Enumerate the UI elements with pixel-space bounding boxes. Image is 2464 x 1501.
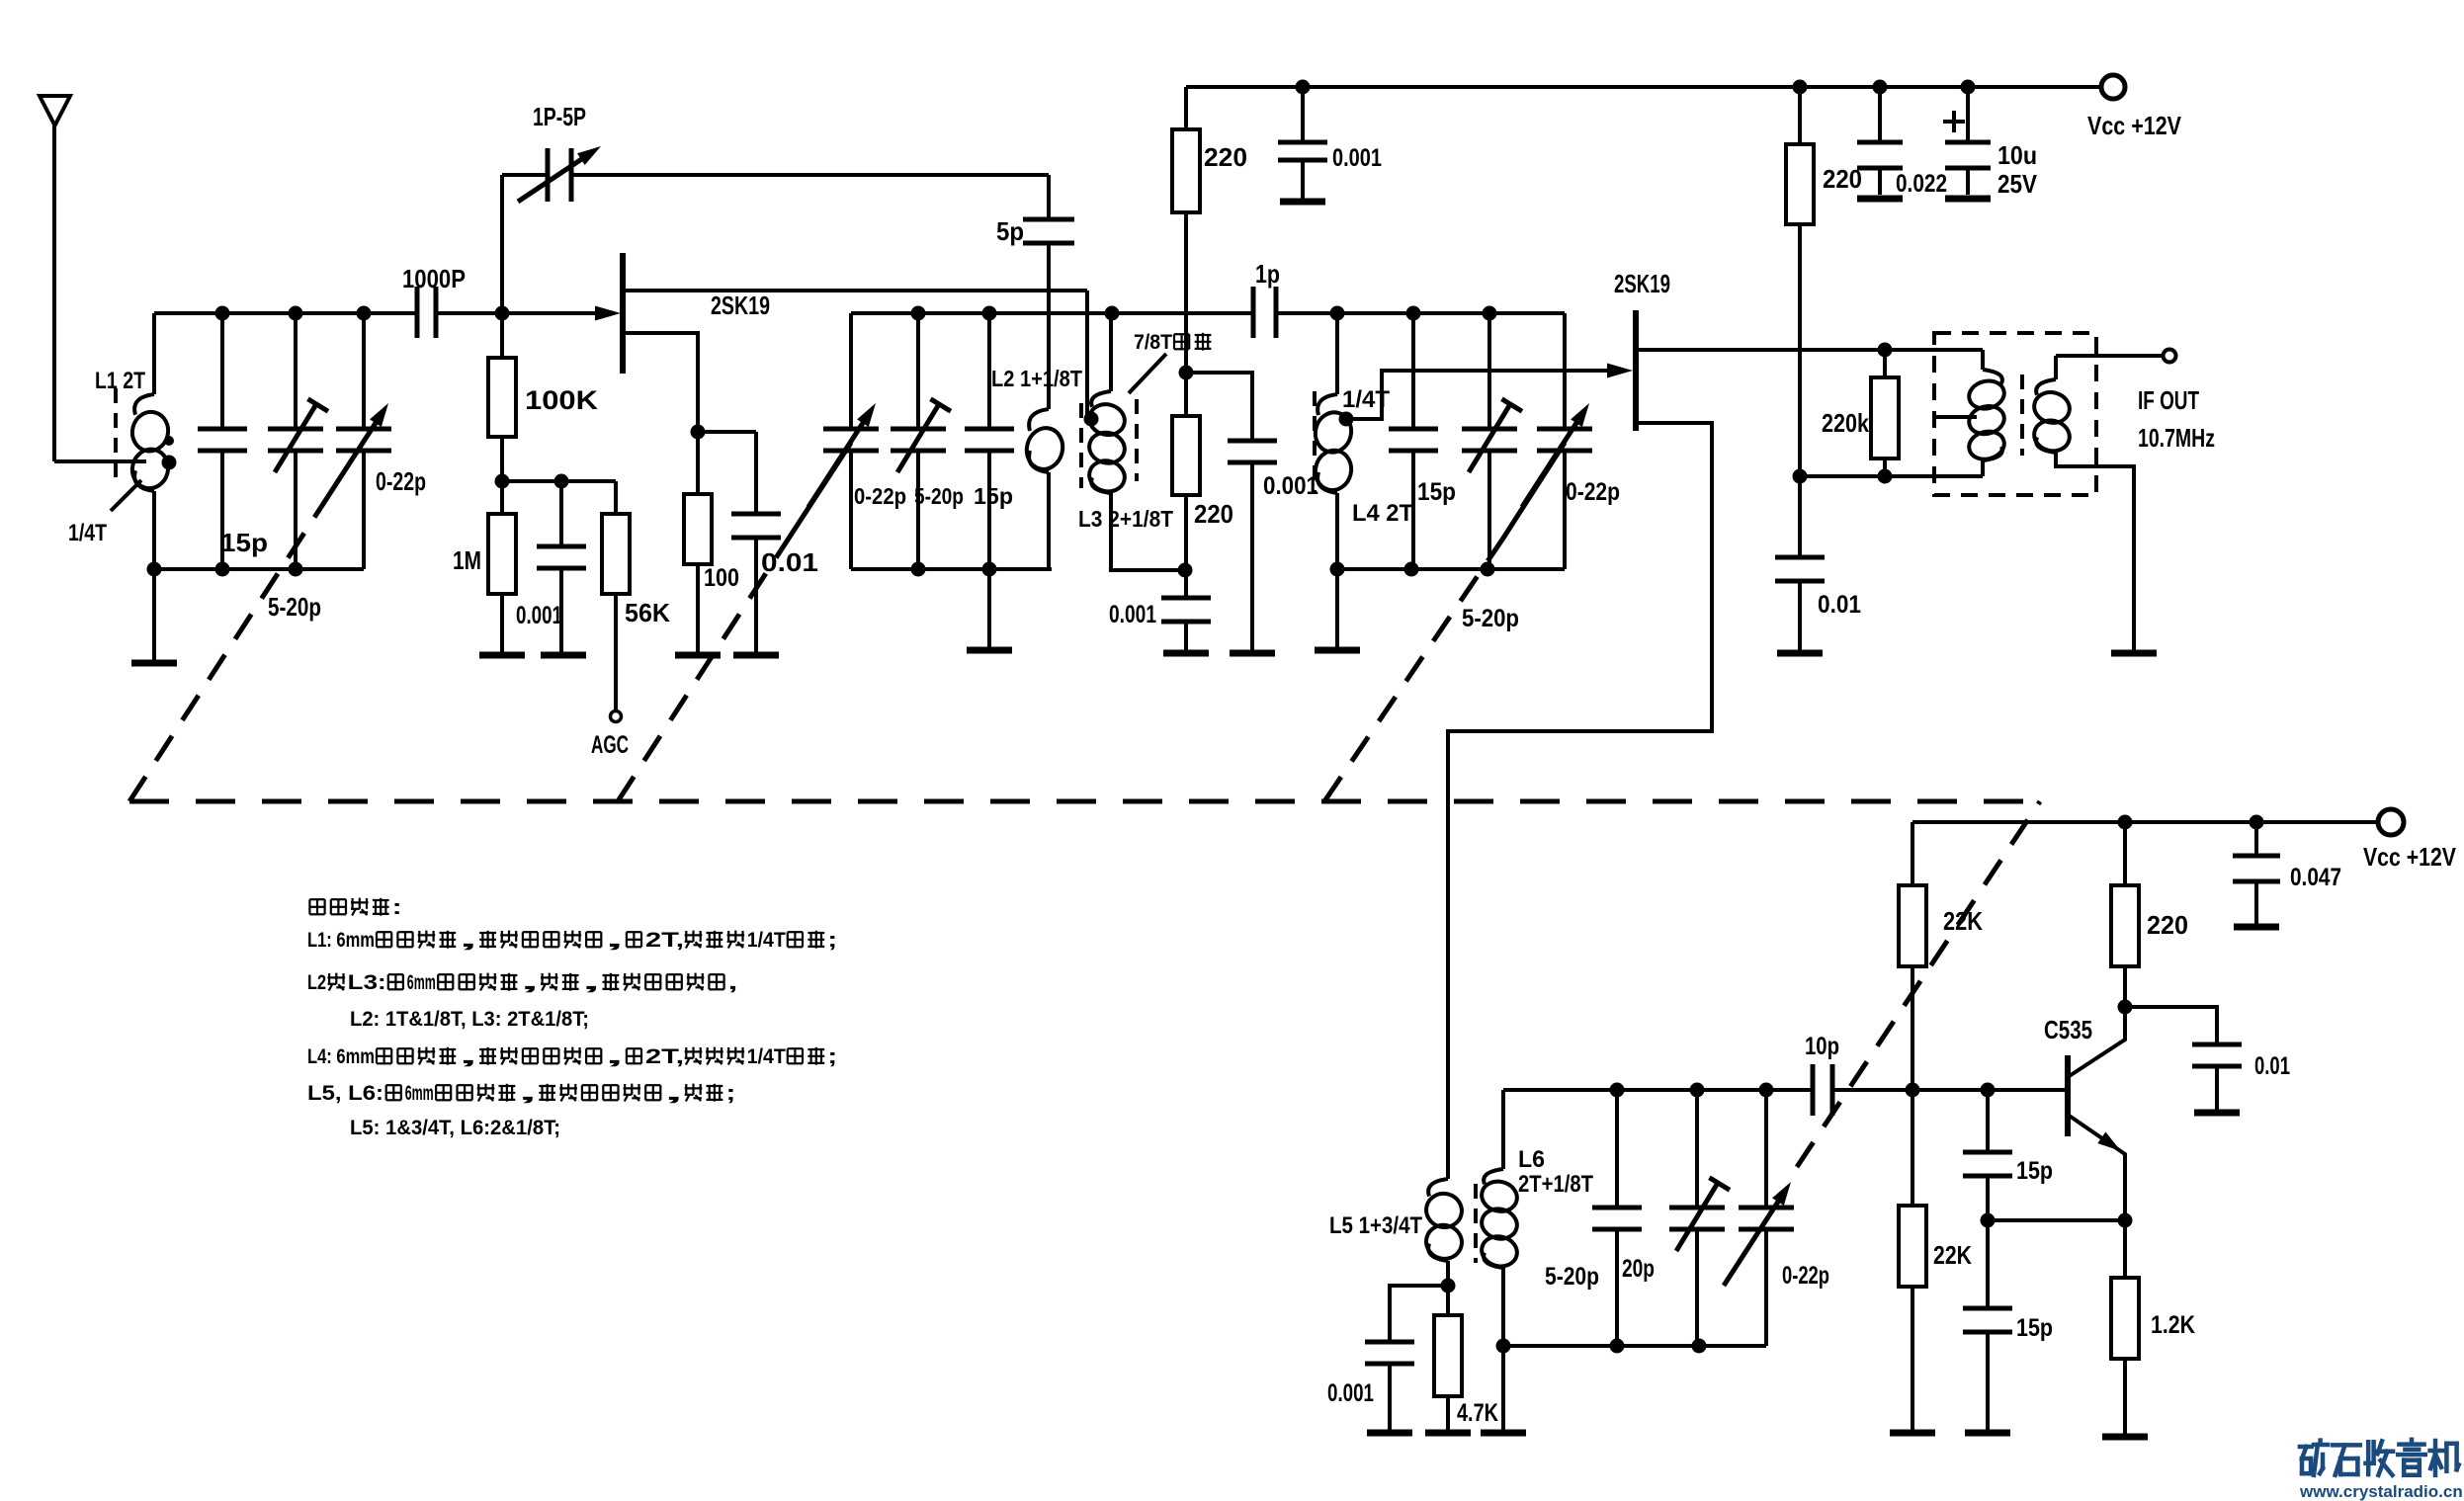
svg-text:C535: C535 [2044, 1015, 2092, 1044]
ground 0.047 [2234, 924, 2279, 931]
resistor 22K lower [1911, 1090, 1914, 1206]
svg-text:0-22p: 0-22p [1782, 1262, 1829, 1290]
node top rail [1296, 80, 1311, 95]
svg-text:56K: 56K [625, 598, 670, 627]
terminal IF OUT [2164, 350, 2176, 363]
svg-text:5-20p: 5-20p [914, 483, 964, 509]
transistor C535 emitter [2068, 1115, 2125, 1220]
svg-text:www.crystalradio.cn: www.crystalradio.cn [2299, 1482, 2463, 1501]
ground 15p osc lower [1965, 1430, 2010, 1437]
svg-text:0.001: 0.001 [1327, 1379, 1374, 1407]
node osc bottom bus [1496, 1339, 1511, 1354]
svg-text:1/4T: 1/4T [747, 1045, 786, 1068]
wire 15p to emitter [1988, 1218, 2125, 1222]
transistor 2SK19 first: channel bar [620, 253, 626, 374]
node tank2 bottom [911, 562, 926, 577]
svg-text:220k: 220k [1822, 408, 1869, 438]
node bottom rail [2118, 815, 2133, 830]
wire bottom bus tank2 [851, 567, 1052, 571]
node L3 tap 7/8T [1084, 412, 1099, 427]
inductor L2 [1029, 409, 1049, 431]
node FET1 gate [495, 306, 510, 321]
wire rail corner to 220 [1184, 87, 1188, 129]
svg-text:15p: 15p [2016, 1157, 2053, 1185]
wire 220 drain column [1798, 87, 1802, 144]
svg-text:,: , [605, 929, 624, 952]
svg-text:0-22p: 0-22p [854, 483, 906, 509]
wire tank3 top bus [1337, 311, 1565, 315]
wire FET2 source [1448, 423, 1712, 1179]
wire IF OUT [2056, 354, 2163, 358]
wire 10p to base [1832, 1088, 2068, 1092]
wire 5p to L2 [1047, 243, 1051, 409]
svg-text:L2 1+1/8T: L2 1+1/8T [991, 366, 1082, 391]
node 220k [1878, 343, 1893, 358]
svg-text:L6: L6 [1518, 1146, 1545, 1173]
ground 0.01 drain [1777, 650, 1823, 657]
svg-text:1.2K: 1.2K [2151, 1311, 2195, 1339]
terminal AGC [611, 711, 622, 722]
svg-text:;: ; [827, 1045, 837, 1068]
inductor L1 [152, 313, 156, 394]
wire antenna to L1 tap [54, 459, 146, 463]
svg-text:220: 220 [1194, 499, 1233, 529]
wire 1p to tank3 [1276, 311, 1337, 315]
ground 1M [479, 652, 525, 659]
node tank1 top L1 [215, 306, 230, 321]
node base bus [1906, 1083, 1920, 1098]
note coil parameters text [309, 898, 324, 900]
dashed linkage to tank2 [618, 550, 781, 801]
ground tank2 [967, 647, 1012, 654]
svg-text::: : [392, 896, 402, 919]
wire 5p top [1047, 175, 1051, 219]
capacitor 0.01 source [731, 512, 781, 517]
ground tank3 [1315, 647, 1360, 654]
svg-text:6mm: 6mm [405, 1082, 434, 1105]
wire bias node [502, 479, 616, 483]
svg-text:L5 1+3/4T: L5 1+3/4T [1329, 1212, 1422, 1239]
wire 1P-5P to 5p cap [571, 173, 1049, 177]
wire osc bottom bus [1503, 1344, 1766, 1348]
transistor C535 collector [2068, 1007, 2125, 1077]
wire tank2 ground stub [987, 569, 991, 647]
wire top bus tank1 [154, 311, 417, 315]
ground 0.001 bias [541, 652, 586, 659]
svg-text:5p: 5p [996, 216, 1024, 246]
ground 1.2K [2102, 1434, 2148, 1441]
svg-text:2T,: 2T, [645, 929, 684, 952]
wire osc top bus [1503, 1088, 1813, 1092]
dashed gang linkage horizontal [129, 799, 2040, 804]
svg-text:10u: 10u [1997, 140, 2037, 170]
capacitor 15p osc lower [1986, 1220, 1990, 1308]
dashed linkage to tank3 [1324, 540, 1502, 801]
ground 4.7K [1425, 1430, 1471, 1437]
IF transformer secondary [2054, 356, 2058, 379]
node C535 collector [2118, 1000, 2133, 1015]
svg-text:0.01: 0.01 [1818, 591, 1861, 619]
wire L5 to 0.001 [1390, 1286, 1448, 1342]
svg-text:6mm: 6mm [407, 971, 436, 994]
svg-text:L1 2T: L1 2T [95, 368, 145, 394]
capacitor 5p [1023, 217, 1074, 222]
capacitor 15p tank2 [987, 313, 991, 429]
trimmer 5-20p tank2 [916, 313, 920, 429]
svg-text:5-20p: 5-20p [1545, 1263, 1599, 1291]
svg-text:L2: 1T&1/8T, L3: 2T&1/8T;: L2: 1T&1/8T, L3: 2T&1/8T; [350, 1008, 589, 1031]
ground 0.01 osc [2194, 1110, 2240, 1117]
transistor 2SK19 second: gate arrow [1607, 364, 1633, 378]
node FET1 source [691, 425, 706, 440]
capacitor 10u electrolytic [1966, 87, 1970, 142]
svg-text:5-20p: 5-20p [268, 592, 321, 622]
node emitter [2118, 1213, 2133, 1228]
wire tank3 ground stub [1335, 569, 1339, 647]
core L2/L3 dashed [1079, 403, 1083, 488]
capacitor 15p osc upper [1986, 1090, 1990, 1152]
transistor C535 base bar [2065, 1055, 2071, 1136]
resistor 22K upper [1911, 822, 1914, 885]
resistor 1.2K [2123, 1220, 2127, 1278]
svg-text:0-22p: 0-22p [376, 466, 426, 496]
svg-text:4.7K: 4.7K [1457, 1399, 1498, 1427]
transistor 2SK19 first: gate arrow [595, 306, 621, 321]
node L1 tap [162, 456, 177, 470]
core of L1 (dashed) [114, 388, 118, 484]
svg-text:10.7MHz: 10.7MHz [2138, 423, 2215, 453]
wire bottom link [1800, 474, 1983, 478]
svg-text:15p: 15p [974, 483, 1013, 509]
wire 1000P to gate node [436, 311, 597, 315]
node drain bottom [1793, 469, 1808, 484]
capacitor 1p [1251, 287, 1256, 338]
node osc top bus [1610, 1083, 1625, 1098]
inductor L6 [1501, 1090, 1505, 1169]
svg-text:10p: 10p [1805, 1033, 1839, 1060]
svg-text:25V: 25V [1997, 169, 2038, 199]
capacitor 0.001 under L3 [1161, 596, 1211, 601]
dashed linkage to oscillator [1797, 801, 2040, 1167]
inductor L5 [1428, 1179, 1448, 1197]
svg-text:L5, L6:: L5, L6: [307, 1082, 383, 1105]
terminal Vcc bottom [2378, 809, 2404, 835]
trimmer 0-22p tank3 [1563, 313, 1567, 429]
svg-text:,: , [728, 971, 738, 994]
svg-text:1000P: 1000P [402, 264, 466, 293]
transistor 2SK19 second: channel bar [1633, 310, 1639, 431]
wire 0.001 side link [1186, 373, 1252, 441]
svg-text:0.001: 0.001 [1332, 144, 1382, 172]
svg-text:0.01: 0.01 [2254, 1052, 2290, 1080]
svg-text:,: , [605, 1045, 624, 1068]
node 15p mid [1981, 1213, 1996, 1228]
svg-text:0.001: 0.001 [1263, 472, 1318, 500]
svg-text:22K: 22K [1943, 906, 1983, 936]
svg-text:,: , [521, 971, 540, 994]
ground 0.022 [1857, 196, 1903, 203]
wire FET2 drain [1636, 348, 1983, 352]
svg-text:Vcc +12V: Vcc +12V [2363, 842, 2457, 872]
resistor 1M [500, 481, 504, 514]
node L3 bottom 220 [1178, 563, 1193, 578]
svg-text:,: , [459, 1045, 477, 1068]
svg-text:22K: 22K [1933, 1240, 1972, 1270]
capacitor 20p [1615, 1090, 1619, 1208]
resistor 220 upper mid [1172, 129, 1200, 212]
svg-text:220: 220 [1823, 164, 1862, 194]
svg-text:,: , [664, 1082, 683, 1105]
svg-text:0.001: 0.001 [516, 602, 562, 629]
inductor L3 [1109, 313, 1113, 391]
svg-text:,: , [582, 971, 601, 994]
svg-text:1/4T: 1/4T [747, 929, 786, 952]
resistor 220 osc [2123, 822, 2127, 885]
watermark crystalradio logo [2300, 1445, 2312, 1450]
capacitor 0.001 rail [1301, 87, 1305, 142]
resistor 100K [500, 313, 504, 358]
svg-text:220: 220 [2147, 910, 2188, 940]
svg-text:;: ; [725, 1082, 735, 1105]
wire to 1P-5P [502, 173, 548, 177]
svg-text:Vcc +12V: Vcc +12V [2087, 111, 2182, 140]
ground 0.01 source [733, 652, 779, 659]
inductor L4 [1335, 313, 1339, 394]
svg-text:1P-5P: 1P-5P [533, 102, 586, 131]
svg-text:0.022: 0.022 [1896, 170, 1947, 198]
resistor 220 drain [1786, 144, 1814, 224]
capacitor 15p tank1 [220, 313, 224, 429]
wire gate node up [500, 175, 504, 313]
trimmer 5-20p tank3 [1487, 313, 1491, 429]
ground 22K lower [1890, 1430, 1935, 1437]
svg-text:100: 100 [704, 564, 739, 592]
svg-text:;: ; [827, 929, 837, 952]
ground 10u [1945, 196, 1991, 203]
svg-text:L4 2T: L4 2T [1352, 500, 1413, 527]
svg-text:0.01: 0.01 [761, 547, 818, 577]
node tank3 bottom [1330, 562, 1345, 577]
node tank3 top [1330, 306, 1345, 321]
capacitor 0.047 [2254, 822, 2258, 856]
wire collector to 0.01 [2125, 1007, 2217, 1044]
capacitor 10p [1811, 1064, 1816, 1116]
capacitor 0.01 drain [1775, 555, 1825, 560]
IF transformer box dashed [1934, 333, 2096, 495]
ground L6 [1501, 1346, 1505, 1431]
IF transformer primary tap [1934, 415, 1977, 419]
ground 0.001 rail [1280, 199, 1325, 206]
trimmer 0-22p osc [1764, 1090, 1768, 1208]
wire FET1 source [623, 333, 698, 432]
wire L4 tap to FET2 gate [1346, 371, 1609, 419]
trimmer 5-20p tank1 [294, 313, 297, 429]
ground 100 [675, 652, 721, 659]
svg-text:,: , [459, 929, 477, 952]
antenna [40, 96, 70, 125]
svg-text:2T,: 2T, [645, 1045, 684, 1068]
IF transformer core dashed [2020, 375, 2024, 456]
svg-text:0.047: 0.047 [2290, 864, 2341, 891]
svg-text:,: , [518, 1082, 537, 1105]
IF transformer primary [1981, 350, 1985, 370]
svg-text:L5: 1&3/4T, L6:2&1/8T;: L5: 1&3/4T, L6:2&1/8T; [350, 1117, 560, 1139]
resistor 4.7K [1446, 1286, 1450, 1315]
wire bottom rail [1912, 820, 2378, 824]
svg-text:0-22p: 0-22p [1566, 478, 1620, 506]
wire tank3 bottom bus [1337, 567, 1565, 571]
trimmer 0-22p tank2 [849, 313, 853, 429]
svg-text:1/4T: 1/4T [68, 520, 107, 546]
ground 0.001 under L3 [1163, 650, 1209, 657]
ground 0.001 side [1230, 650, 1275, 657]
node bias [495, 474, 510, 489]
ground IF secondary [2111, 650, 2157, 657]
core L4 dashed [1313, 391, 1317, 492]
node tank1 bottom [147, 562, 162, 577]
core L5/L6 dashed [1474, 1184, 1478, 1263]
svg-text:15p: 15p [2016, 1314, 2053, 1342]
terminal Vcc top [2101, 75, 2125, 99]
node L4 tap [1339, 412, 1354, 427]
svg-text:AGC: AGC [591, 731, 629, 759]
svg-text:2SK19: 2SK19 [711, 291, 770, 320]
svg-text:15p: 15p [220, 528, 268, 557]
svg-text:7/8T: 7/8T [1134, 331, 1172, 354]
wire bottom bus tank1 [154, 567, 364, 571]
svg-text:2T+1/8T: 2T+1/8T [1518, 1171, 1593, 1198]
resistor 56K [602, 514, 630, 594]
svg-text:2SK19: 2SK19 [1614, 269, 1670, 298]
wire FET1 drain [623, 289, 1087, 292]
trimmer 1P-5P [546, 148, 551, 202]
wire source to 0.01 [698, 430, 756, 434]
svg-text:L3 2+1/8T: L3 2+1/8T [1078, 506, 1173, 532]
wire top rail [1186, 85, 2100, 89]
node tank2 top [911, 306, 926, 321]
svg-text:1p: 1p [1255, 259, 1280, 289]
capacitor 1000P [415, 287, 420, 338]
svg-text:100K: 100K [525, 385, 599, 415]
wire gate bus mixer [851, 311, 1253, 315]
capacitor 0.01 osc [2192, 1042, 2242, 1047]
capacitor 0.022 [1878, 87, 1882, 142]
resistor 220k [1871, 377, 1899, 459]
svg-text:1M: 1M [453, 545, 481, 575]
wire FET1 drain to L3 tap [1085, 291, 1089, 415]
svg-text:15p: 15p [1417, 478, 1456, 506]
svg-text:L1: 6mm: L1: 6mm [307, 929, 375, 952]
capacitor 0.001 bias [559, 481, 563, 546]
svg-text:20p: 20p [1622, 1255, 1655, 1283]
svg-text:IF OUT: IF OUT [2138, 385, 2199, 415]
trimmer 5-20p osc [1695, 1090, 1699, 1208]
capacitor 0.001 osc [1365, 1340, 1414, 1345]
node L5 bottom [1441, 1279, 1456, 1293]
ground 0.001 osc [1367, 1430, 1412, 1437]
wire L1 to ground [152, 569, 156, 662]
capacitor 0.001 side [1228, 439, 1277, 444]
svg-text:220: 220 [1204, 142, 1247, 172]
resistor 220 lower mid [1172, 416, 1200, 495]
node 220 mid [1179, 366, 1194, 380]
resistor 100 [696, 432, 700, 494]
svg-text:L2: L2 [307, 971, 326, 994]
trimmer 0-22p tank1 [362, 313, 366, 429]
svg-text:L3:: L3: [348, 971, 386, 994]
svg-text:5-20p: 5-20p [1462, 605, 1519, 632]
ground tank1 [131, 660, 177, 667]
svg-text:0.001: 0.001 [1109, 601, 1156, 628]
svg-text:L4: 6mm: L4: 6mm [307, 1045, 375, 1068]
dashed linkage to tank1 [129, 507, 321, 801]
capacitor 15p tank3 [1411, 313, 1415, 429]
